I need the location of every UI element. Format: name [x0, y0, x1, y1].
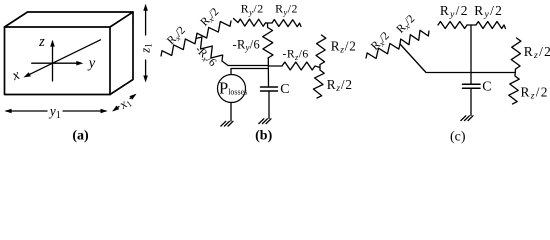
- svg-text:(b): (b): [255, 129, 272, 144]
- resistor Ry/2 first (top, b): [238, 19, 266, 26]
- svg-text:y: y: [87, 56, 96, 72]
- resistor -Ry/6 (vertical, b): [263, 23, 273, 58]
- y1 dimension arrow: [6, 110, 47, 112]
- z axis: [52, 45, 54, 81]
- wire source to ground: [230, 103, 232, 122]
- y axis: [32, 62, 78, 64]
- svg-text:z: z: [38, 34, 45, 50]
- capacitor C (c) plates: [463, 83, 481, 85]
- wire junction to bus (c): [400, 44, 515, 73]
- resistor Ry/2 second (top, b): [272, 20, 300, 27]
- wire open lead right (b top): [300, 23, 302, 26]
- x axis: [29, 40, 101, 75]
- current source Plosses circle: [218, 75, 246, 103]
- resistor Rx/2 first (diagonal, b): [161, 39, 196, 57]
- box top face: [5, 12, 134, 27]
- svg-text:C: C: [280, 82, 289, 97]
- wire bus to -Rz/6: [269, 65, 283, 67]
- wire node (b top): [266, 22, 273, 24]
- resistor Rx/2 second (diagonal, c): [400, 30, 429, 44]
- wire open lead left (b top): [234, 19, 239, 23]
- resistor Rx/2 second (diagonal, b): [196, 21, 231, 39]
- node wire vertical (b center): [267, 58, 269, 87]
- node wire vertical (c): [470, 25, 472, 84]
- wire node (c top): [467, 24, 476, 26]
- svg-text:(c): (c): [450, 130, 466, 145]
- resistor Rz/2 upper (b): [316, 35, 326, 65]
- x1 dimension arrow: [114, 107, 120, 111]
- resistor -Rz/6 (horizontal, b): [282, 62, 315, 70]
- resistor Rz/2 lower (b): [313, 70, 324, 98]
- ground (cap, c): [468, 116, 473, 121]
- resistor Rz/2 upper (c): [511, 38, 521, 69]
- wire cap to ground (b): [268, 91, 270, 119]
- wire open lead right (c top): [504, 25, 506, 29]
- resistor Ry/2 second (top, c): [476, 22, 504, 29]
- capacitor C (b) plates: [261, 86, 278, 88]
- ground (cap, b): [266, 119, 271, 124]
- resistor -Rx/6 (diagonal, b): [196, 37, 223, 61]
- wire cap to ground (c): [470, 88, 472, 115]
- svg-text:(a): (a): [72, 129, 89, 144]
- svg-text:C: C: [482, 80, 491, 95]
- z1 dimension arrow: [145, 9, 147, 35]
- bus wire bottom (b): [231, 69, 269, 75]
- resistor Rx/2 first (diagonal, c): [366, 44, 400, 59]
- wire between Rz/2 (b): [319, 65, 321, 71]
- wire -Rz/6 to right node: [315, 66, 320, 68]
- box front face: [5, 27, 111, 95]
- ground (source, b): [228, 121, 233, 126]
- wire -Rx/6 to bus: [222, 61, 269, 66]
- box right face: [110, 12, 133, 95]
- wire between Rz/2 (c): [514, 69, 517, 76]
- resistor Rz/2 lower (c): [509, 76, 519, 104]
- resistor Ry/2 first (top, c): [438, 22, 467, 29]
